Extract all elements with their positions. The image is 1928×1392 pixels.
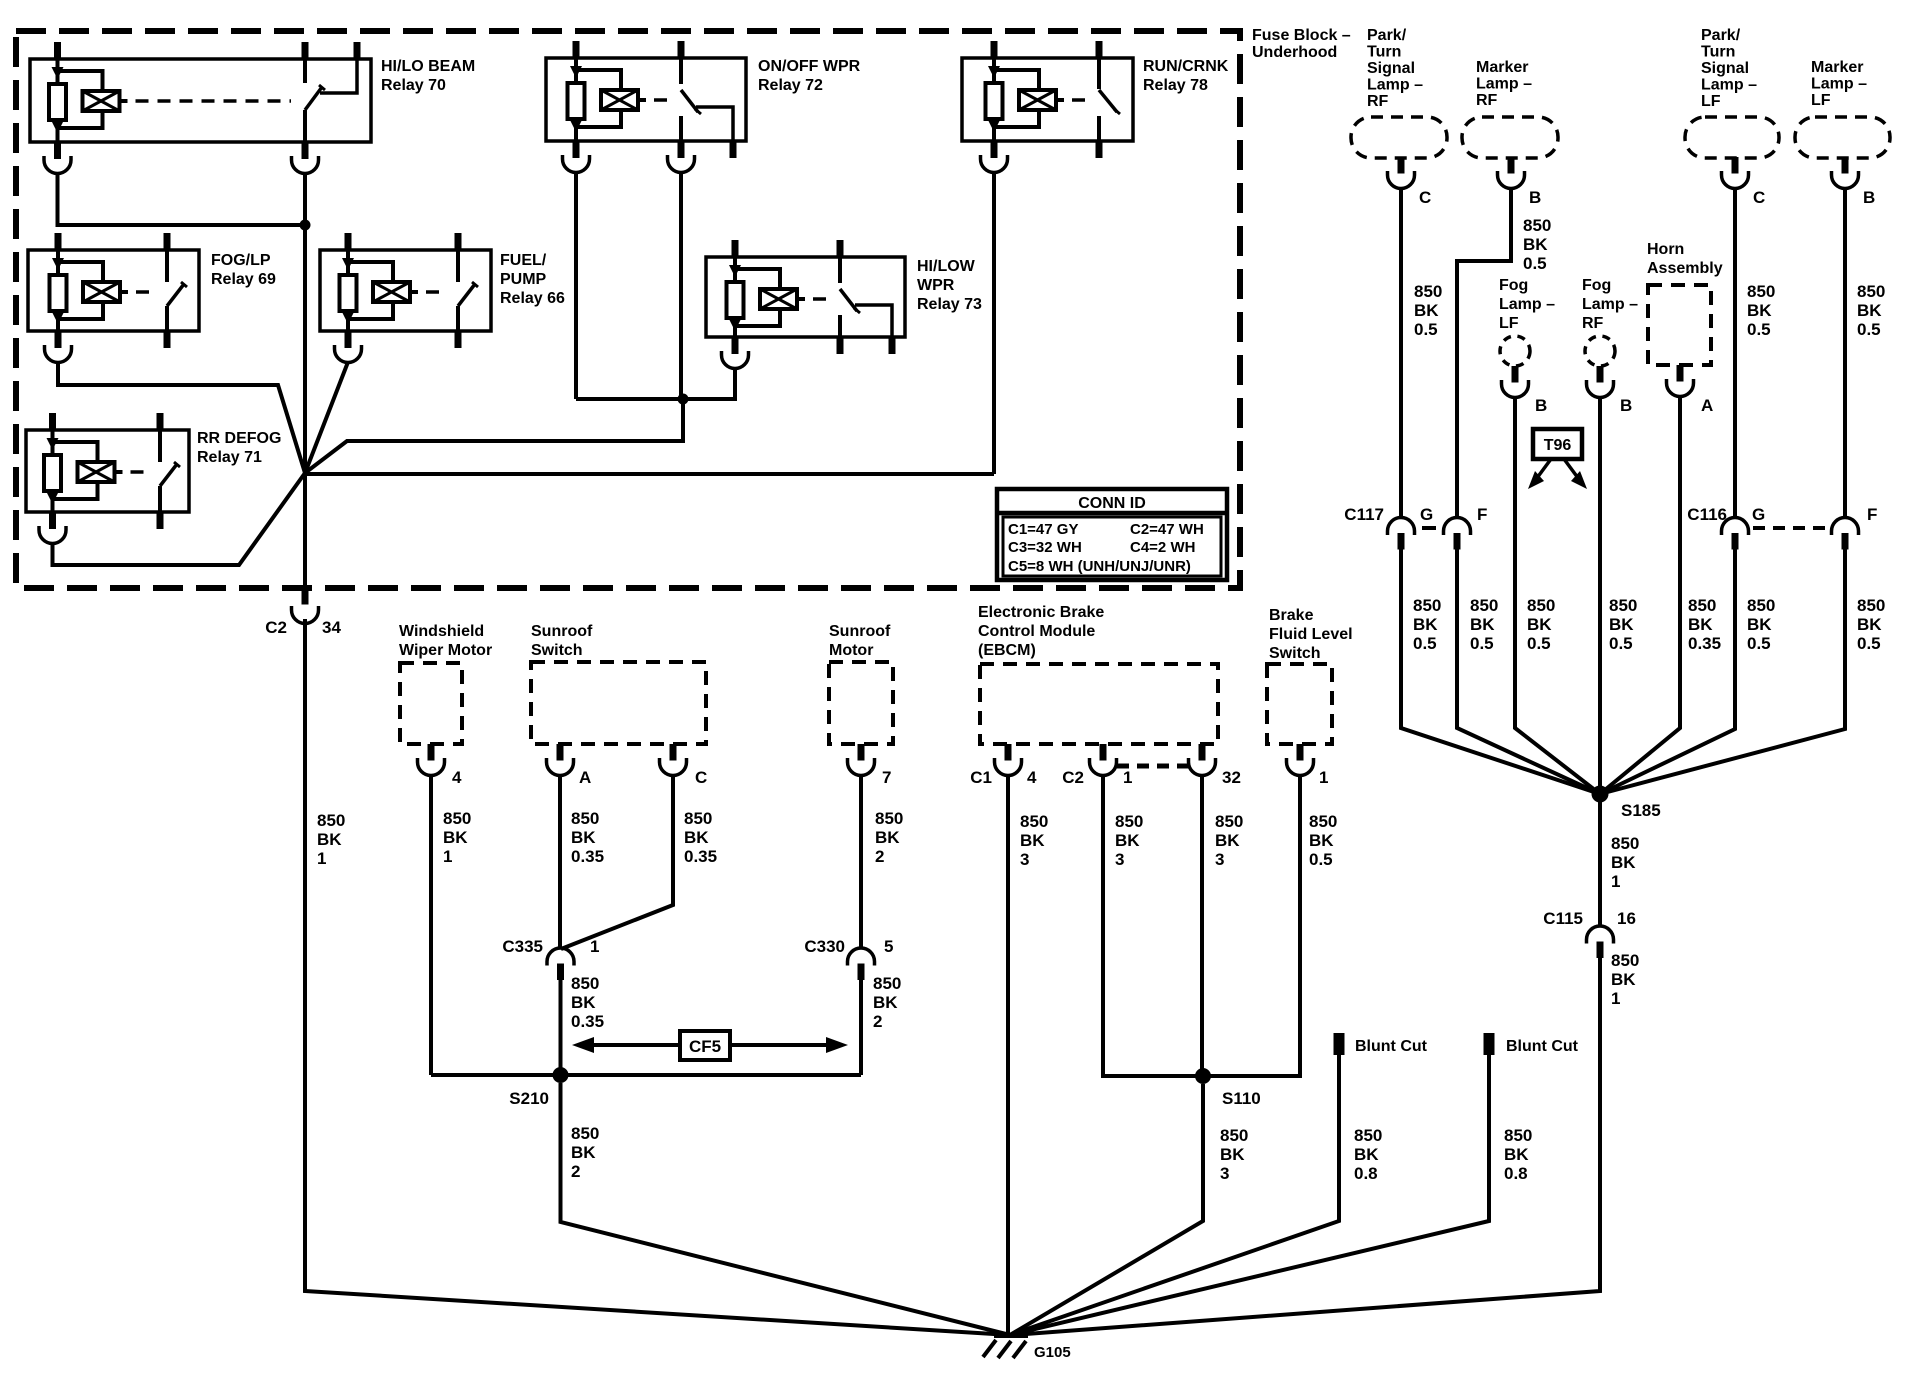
wire junction to relay72/73 net (305, 400, 683, 473)
svg-text:3: 3 (1220, 1164, 1229, 1183)
wire label 850 BK 0.35 (horn) (1688, 596, 1721, 653)
wire label 850 BK 0.5 (1401) (1414, 282, 1442, 339)
wire relay73 coil down to bus (733, 367, 737, 401)
svg-text:RF: RF (1582, 315, 1604, 332)
svg-text:0.35: 0.35 (571, 847, 604, 866)
svg-text:LF: LF (1701, 93, 1721, 110)
connector C2 pin 1 EBCM (1090, 744, 1117, 776)
svg-text:Turn: Turn (1701, 44, 1735, 61)
label FOG/LP Relay 69 (211, 252, 276, 288)
svg-text:850: 850 (1688, 596, 1716, 615)
svg-text:BK: BK (317, 830, 342, 849)
svg-text:Park/: Park/ (1701, 27, 1741, 44)
svg-text:1: 1 (1611, 872, 1620, 891)
wire C117 F to S185 (1457, 550, 1600, 795)
label Fog Lamp - LF (1499, 277, 1555, 332)
svg-text:850: 850 (1414, 282, 1442, 301)
svg-text:Blunt Cut: Blunt Cut (1506, 1038, 1579, 1055)
label FUEL/PUMP Relay 66 (500, 252, 565, 307)
label pin 32 EBCM (1222, 768, 1241, 787)
svg-text:Relay 78: Relay 78 (1143, 77, 1208, 94)
wire S185 to C115 (1598, 802, 1602, 926)
label C330 (804, 937, 845, 956)
label C115 (1543, 909, 1583, 928)
wire label 850 BK 1 (C115) (1611, 951, 1639, 1008)
wire relay70 common down (303, 172, 307, 589)
svg-text:Relay 70: Relay 70 (381, 77, 446, 94)
connector C115 pin 16 (1587, 926, 1614, 958)
wire junction to relay78 (305, 472, 994, 476)
label C115 16 (1617, 909, 1636, 928)
svg-text:C: C (695, 768, 707, 787)
svg-text:BK: BK (1747, 615, 1772, 634)
label Fuse Block - Underhood (1252, 27, 1351, 61)
svg-text:B: B (1620, 396, 1632, 415)
svg-text:Relay 69: Relay 69 (211, 271, 276, 288)
svg-text:2: 2 (873, 1012, 882, 1031)
svg-text:BK: BK (1215, 831, 1240, 850)
connector C116 pin G (1722, 518, 1749, 550)
svg-text:S110: S110 (1222, 1089, 1261, 1108)
connector pin under relay 69 coil (45, 331, 72, 362)
wire label 850 BK 0.5 (1845) (1857, 282, 1885, 339)
label pin C park/turn LF (1753, 188, 1765, 207)
svg-text:RR DEFOG: RR DEFOG (197, 430, 281, 447)
svg-text:A: A (1701, 396, 1713, 415)
wire label 850 BK 0.8 (blunt cut 2) (1504, 1126, 1532, 1183)
svg-text:1: 1 (1611, 989, 1620, 1008)
relay 69 FOG/LP (28, 233, 199, 348)
label C117 F (1477, 505, 1487, 524)
wire park/turn LF to C116 G (1733, 188, 1737, 518)
svg-text:Electronic Brake: Electronic Brake (978, 604, 1104, 621)
label ON/OFF WPR Relay 72 (758, 58, 861, 94)
relay 66 FUEL/PUMP (320, 233, 491, 348)
label C116 F (1867, 505, 1877, 524)
svg-text:Brake: Brake (1269, 607, 1314, 624)
svg-text:BK: BK (684, 828, 709, 847)
svg-text:850: 850 (1611, 834, 1639, 853)
svg-text:CONN ID: CONN ID (1078, 495, 1146, 512)
svg-text:850: 850 (1747, 282, 1775, 301)
connector pin under relay 72 common (668, 141, 695, 173)
svg-text:BK: BK (1413, 615, 1438, 634)
label pin 4 EBCM (1027, 768, 1037, 787)
wire blunt cut 2 to G105 (1010, 1055, 1489, 1335)
svg-text:Fog: Fog (1582, 277, 1611, 294)
svg-text:A: A (579, 768, 591, 787)
wire relay70 coil to bus (58, 172, 306, 225)
svg-text:850: 850 (1857, 596, 1885, 615)
relay 70 HI/LO BEAM (30, 42, 371, 159)
svg-text:Lamp –: Lamp – (1582, 296, 1638, 313)
label pin A (579, 768, 591, 787)
wire label 850 BK 1 (C2) (317, 811, 345, 868)
svg-text:850: 850 (1504, 1126, 1532, 1145)
svg-text:3: 3 (1115, 850, 1124, 869)
connector pin B fog RF (1587, 366, 1614, 398)
connector pin 32 EBCM (1189, 744, 1216, 776)
svg-text:C4=2 WH: C4=2 WH (1130, 539, 1195, 556)
svg-text:BK: BK (571, 1143, 596, 1162)
wire C117 G to S185 (1401, 550, 1600, 795)
svg-text:0.5: 0.5 (1747, 320, 1771, 339)
svg-text:BK: BK (875, 828, 900, 847)
svg-text:F: F (1867, 505, 1877, 524)
connector C330 pin 5 (848, 948, 875, 980)
label C116 (1687, 505, 1727, 524)
wire label 850 BK 0.5 (C117 G) (1413, 596, 1441, 653)
wire label 850 BK 3 (C2-1) (1115, 812, 1143, 869)
svg-text:850: 850 (1857, 282, 1885, 301)
CONN ID table (997, 489, 1227, 580)
fog lamp RF outline (1585, 336, 1615, 366)
svg-text:Fog: Fog (1499, 277, 1528, 294)
svg-text:2: 2 (571, 1162, 580, 1181)
svg-text:0.5: 0.5 (1309, 850, 1333, 869)
connector pin 1 BFLS (1287, 744, 1314, 776)
label Sunroof Motor (829, 623, 891, 659)
svg-text:850: 850 (1523, 216, 1551, 235)
svg-text:0.35: 0.35 (571, 1012, 604, 1031)
wire label 850 BK 3 (C1-4) (1020, 812, 1048, 869)
svg-text:850: 850 (1611, 951, 1639, 970)
wire C2 down to G105 (305, 619, 1010, 1335)
svg-text:C2: C2 (265, 618, 287, 637)
svg-text:Marker: Marker (1811, 59, 1863, 76)
svg-text:BK: BK (1354, 1145, 1379, 1164)
svg-text:4: 4 (1027, 768, 1037, 787)
relay 73 HI/LOW WPR (706, 240, 905, 354)
svg-text:S185: S185 (1621, 801, 1661, 820)
brake fluid level switch box (1267, 664, 1332, 744)
svg-text:Sunroof: Sunroof (531, 623, 593, 640)
svg-text:BK: BK (1611, 970, 1636, 989)
wire label 850 BK 0.5 (BFLS) (1309, 812, 1337, 869)
svg-text:BK: BK (1527, 615, 1552, 634)
label C117 G (1420, 505, 1433, 524)
label C116 G (1752, 505, 1765, 524)
svg-text:Lamp –: Lamp – (1811, 76, 1867, 93)
svg-text:BK: BK (1747, 301, 1772, 320)
connector pin C sunroof switch (660, 744, 687, 776)
wire label 850 BK 0.5 (marker RF) (1523, 216, 1551, 273)
label C330 pin 5 (884, 937, 893, 956)
svg-text:G105: G105 (1034, 1344, 1071, 1361)
svg-text:C5=8 WH (UNH/UNJ/UNR): C5=8 WH (UNH/UNJ/UNR) (1008, 558, 1191, 575)
svg-text:0.5: 0.5 (1527, 634, 1551, 653)
wire label 850 BK 0.5 (fog LF) (1527, 596, 1555, 653)
svg-text:0.5: 0.5 (1413, 634, 1437, 653)
label pin B fog RF (1620, 396, 1632, 415)
svg-text:Signal: Signal (1367, 60, 1415, 77)
label pin C (695, 768, 707, 787)
label Park/Turn Signal Lamp - RF (1367, 27, 1423, 110)
svg-text:16: 16 (1617, 909, 1636, 928)
connector C117 pin G (1388, 518, 1415, 550)
park/turn signal lamp LF outline (1685, 117, 1779, 158)
svg-text:FOG/LP: FOG/LP (211, 252, 271, 269)
wire label 850 BK 0.35 (pin A) (571, 809, 604, 866)
wire label 850 BK 0.5 (C116 G) (1747, 596, 1775, 653)
svg-text:1: 1 (1123, 768, 1132, 787)
label C335 pin 1 (590, 937, 599, 956)
svg-text:BK: BK (571, 993, 596, 1012)
svg-text:B: B (1535, 396, 1547, 415)
wire horn to S185 (1600, 396, 1680, 795)
label Marker Lamp - RF (1476, 59, 1532, 109)
label Park/Turn Signal Lamp - LF (1701, 27, 1757, 110)
svg-text:C116: C116 (1687, 505, 1727, 524)
svg-text:850: 850 (1527, 596, 1555, 615)
svg-text:Blunt Cut: Blunt Cut (1355, 1038, 1428, 1055)
splice S185 (1592, 786, 1609, 803)
label Marker Lamp - LF (1811, 59, 1867, 109)
svg-text:Switch: Switch (531, 642, 583, 659)
connector pin under relay 78 coil (981, 141, 1008, 173)
svg-text:RF: RF (1476, 92, 1498, 109)
svg-text:ON/OFF WPR: ON/OFF WPR (758, 58, 861, 75)
svg-text:850: 850 (317, 811, 345, 830)
svg-text:850: 850 (1309, 812, 1337, 831)
svg-text:0.5: 0.5 (1747, 634, 1771, 653)
horn assembly box (1648, 285, 1711, 365)
label pin 7 (882, 768, 891, 787)
svg-text:C117: C117 (1344, 505, 1384, 524)
svg-text:B: B (1529, 188, 1541, 207)
svg-text:(EBCM): (EBCM) (978, 642, 1036, 659)
label Horn Assembly (1647, 241, 1723, 277)
svg-text:G: G (1420, 505, 1433, 524)
svg-text:850: 850 (571, 809, 599, 828)
svg-text:Horn: Horn (1647, 241, 1684, 258)
wire label 850 BK 2 (C330) (873, 974, 901, 1031)
connector pin C park/turn RF (1388, 157, 1415, 189)
wire EBCM C1-4 to G105 (1006, 775, 1010, 1335)
svg-text:0.5: 0.5 (1857, 634, 1881, 653)
T96 takeout label with arrows (1528, 429, 1587, 489)
svg-text:850: 850 (443, 809, 471, 828)
label RUN/CRNK Relay 78 (1143, 58, 1229, 94)
svg-text:BK: BK (1609, 615, 1634, 634)
label HI/LOW WPR Relay 73 (917, 258, 982, 313)
junction dot relay70 bus (300, 220, 311, 231)
svg-text:BK: BK (1470, 615, 1495, 634)
wire sunroof sw A to C335 (558, 775, 562, 948)
wire S110 to G105 (1010, 1084, 1203, 1335)
blunt cut 1 (1334, 1033, 1345, 1055)
svg-text:HI/LO BEAM: HI/LO BEAM (381, 58, 475, 75)
svg-text:BK: BK (1688, 615, 1713, 634)
label Windshield Wiper Motor (399, 623, 492, 659)
label S210 (509, 1089, 549, 1108)
svg-text:BK: BK (443, 828, 468, 847)
svg-text:850: 850 (1747, 596, 1775, 615)
svg-text:Lamp –: Lamp – (1701, 77, 1757, 94)
svg-text:Fluid Level: Fluid Level (1269, 626, 1353, 643)
label Blunt Cut 1 (1355, 1038, 1428, 1055)
ground G105 (983, 1333, 1028, 1358)
label S110 (1222, 1089, 1261, 1108)
svg-text:BK: BK (1115, 831, 1140, 850)
svg-text:C115: C115 (1543, 909, 1583, 928)
svg-text:0.5: 0.5 (1609, 634, 1633, 653)
label 34 (322, 618, 341, 637)
svg-text:0.5: 0.5 (1857, 320, 1881, 339)
label S185 (1621, 801, 1661, 820)
label pin B marker LF (1863, 188, 1875, 207)
label C117 (1344, 505, 1384, 524)
label C1 (970, 768, 992, 787)
svg-text:0.5: 0.5 (1523, 254, 1547, 273)
svg-text:Assembly: Assembly (1647, 260, 1723, 277)
svg-text:5: 5 (884, 937, 893, 956)
blunt cut 2 (1484, 1033, 1495, 1055)
svg-text:0.5: 0.5 (1414, 320, 1438, 339)
sunroof switch box (531, 662, 706, 744)
svg-text:7: 7 (882, 768, 891, 787)
connector pin A sunroof switch (547, 744, 574, 776)
EBCM box (980, 664, 1218, 744)
wire label 850 BK 0.5 (C117 F) (1470, 596, 1498, 653)
wire S210 to G105 (561, 1083, 1011, 1335)
wire C330 to S210 bus (859, 979, 863, 1075)
wire label 850 BK 2 (S210) (571, 1124, 599, 1181)
splice S110 (1195, 1068, 1211, 1084)
svg-text:Lamp –: Lamp – (1476, 76, 1532, 93)
svg-text:850: 850 (1609, 596, 1637, 615)
svg-text:BK: BK (1504, 1145, 1529, 1164)
svg-text:HI/LOW: HI/LOW (917, 258, 976, 275)
connector C2 pin 34 (292, 588, 319, 624)
svg-text:C: C (1753, 188, 1765, 207)
svg-text:LF: LF (1811, 92, 1831, 109)
svg-text:3: 3 (1020, 850, 1029, 869)
relay 72 ON/OFF WPR (546, 41, 746, 158)
svg-text:BK: BK (1523, 235, 1548, 254)
svg-text:Lamp –: Lamp – (1499, 296, 1555, 313)
junction dot 683,399 (678, 394, 689, 405)
svg-text:3: 3 (1215, 850, 1224, 869)
wire C116 G to S185 (1600, 550, 1735, 795)
fog lamp LF outline (1500, 336, 1530, 366)
wire label 850 BK 1 (S185) (1611, 834, 1639, 891)
svg-text:BK: BK (873, 993, 898, 1012)
wire relay71 coil to junction (53, 473, 306, 565)
wire fog RF to S185 (1598, 397, 1602, 795)
wire C116 F to S185 (1600, 550, 1845, 795)
label Brake Fluid Level Switch (1269, 607, 1353, 662)
svg-text:850: 850 (1413, 596, 1441, 615)
connector pin under relay 70 pin 86 (44, 142, 71, 174)
svg-text:BK: BK (1857, 301, 1882, 320)
svg-text:34: 34 (322, 618, 341, 637)
connector pin A horn (1667, 365, 1694, 397)
svg-text:BK: BK (1220, 1145, 1245, 1164)
svg-text:Windshield: Windshield (399, 623, 484, 640)
relay 78 RUN/CRNK (962, 41, 1133, 158)
label pin 4 (452, 768, 462, 787)
wire C115 to G105 (1012, 957, 1600, 1335)
connector pin 7 sunroof motor (848, 744, 875, 776)
connector pin under relay 72 coil (563, 141, 590, 173)
svg-text:0.8: 0.8 (1504, 1164, 1528, 1183)
marker lamp LF outline (1795, 117, 1890, 158)
wire EBCM C2-1 to S110 (1103, 775, 1203, 1076)
svg-text:Lamp –: Lamp – (1367, 77, 1423, 94)
wire relay69 coil to junction (58, 361, 305, 473)
connector C116 pin F (1832, 518, 1859, 550)
svg-text:Wiper Motor: Wiper Motor (399, 642, 492, 659)
svg-text:Motor: Motor (829, 642, 873, 659)
svg-text:B: B (1863, 188, 1875, 207)
splice S210 (553, 1067, 569, 1083)
svg-text:850: 850 (1354, 1126, 1382, 1145)
wire S210 bus (431, 1073, 861, 1077)
label pin B fog LF (1535, 396, 1547, 415)
svg-text:C335: C335 (502, 937, 543, 956)
connector pin 4 wiper motor (418, 744, 445, 776)
park/turn signal lamp RF outline (1351, 117, 1447, 158)
wire label 850 BK 3 (S110) (1220, 1126, 1248, 1183)
label Blunt Cut 2 (1506, 1038, 1579, 1055)
svg-text:C330: C330 (804, 937, 845, 956)
svg-text:850: 850 (875, 809, 903, 828)
svg-text:Turn: Turn (1367, 44, 1401, 61)
label HI/LO BEAM Relay 70 (381, 58, 475, 94)
svg-text:850: 850 (571, 1124, 599, 1143)
label C2 (265, 618, 287, 637)
label Fog Lamp - RF (1582, 277, 1638, 332)
svg-text:0.8: 0.8 (1354, 1164, 1378, 1183)
wire EBCM 32 to S110 (1200, 775, 1204, 1076)
connector C116 tie dashed (1753, 526, 1827, 530)
svg-text:PUMP: PUMP (500, 271, 547, 288)
connector pin under relay 70 pin 30 (292, 142, 319, 174)
svg-text:BK: BK (1857, 615, 1882, 634)
svg-text:WPR: WPR (917, 277, 955, 294)
svg-text:850: 850 (873, 974, 901, 993)
wire C335 to S210 (559, 979, 563, 1075)
wire BFLS to S110 (1203, 775, 1300, 1076)
connector pin B marker LF (1832, 157, 1859, 189)
wire sunroof sw C to C335 (561, 775, 673, 949)
marker lamp RF outline (1462, 117, 1558, 158)
wire label 850 BK 0.8 (blunt cut 1) (1354, 1126, 1382, 1183)
connector pin under relay 73 coil (722, 337, 749, 369)
wire label 850 BK 0.5 (C116 F) (1857, 596, 1885, 653)
svg-text:32: 32 (1222, 768, 1241, 787)
svg-text:0.5: 0.5 (1470, 634, 1494, 653)
label C335 (502, 937, 543, 956)
wire label 850 BK 0.35 (C335) (571, 974, 604, 1031)
label G105 (1034, 1344, 1071, 1361)
svg-text:Underhood: Underhood (1252, 44, 1337, 61)
label C2 EBCM (1062, 768, 1084, 787)
label pin B marker RF (1529, 188, 1541, 207)
svg-text:CF5: CF5 (689, 1037, 721, 1056)
svg-text:LF: LF (1499, 315, 1519, 332)
svg-text:4: 4 (452, 768, 462, 787)
svg-text:1: 1 (1319, 768, 1328, 787)
label RR DEFOG Relay 71 (197, 430, 281, 466)
svg-text:RUN/CRNK: RUN/CRNK (1143, 58, 1229, 75)
svg-text:850: 850 (1215, 812, 1243, 831)
svg-text:1: 1 (590, 937, 599, 956)
CF5 splice reference arrow (572, 1031, 848, 1060)
svg-text:Signal: Signal (1701, 60, 1749, 77)
wire relay66 coil to junction (305, 362, 348, 473)
